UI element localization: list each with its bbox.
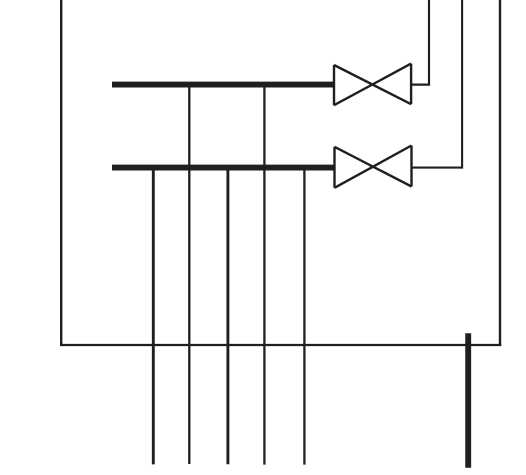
wire: valve V2 outlet to top <box>412 0 463 168</box>
pipe header H2 (thick) <box>112 165 335 171</box>
wire: drop line 2 <box>188 82 190 464</box>
wire: enclosure bottom horizontal <box>60 344 501 346</box>
pipe stub: thick bottom-right vertical <box>465 333 471 468</box>
wire: enclosure left vertical <box>60 0 62 346</box>
wire: valve V1 outlet to top <box>411 0 429 85</box>
wire: drop line 4 <box>263 82 265 465</box>
wire: drop line 5 <box>303 165 305 465</box>
wire: enclosure right vertical <box>499 0 501 346</box>
wire: drop line 3 <box>226 165 229 464</box>
valve V1 <box>334 64 411 106</box>
pipe header H1 (thick) <box>112 82 334 88</box>
valve V2 <box>335 146 412 188</box>
wire: drop line 1 <box>152 165 155 464</box>
